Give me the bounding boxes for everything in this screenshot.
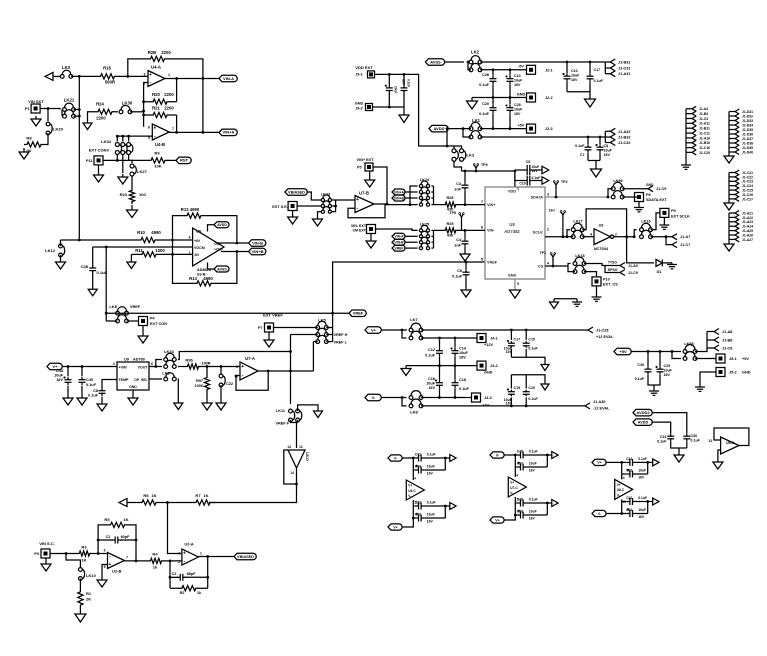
svg-text:P7: P7 <box>258 326 263 330</box>
node LK66 split <box>607 196 610 199</box>
svg-text:R7: R7 <box>195 493 201 498</box>
CS wire <box>545 265 568 267</box>
node U2A out <box>169 555 210 579</box>
svg-text:1000: 1000 <box>195 384 203 388</box>
node fb left top <box>171 239 174 242</box>
svg-text:VIN+B: VIN+B <box>252 249 264 254</box>
svg-text:VOCM: VOCM <box>194 246 205 250</box>
LK23 right vert <box>335 200 337 212</box>
svg-text:10uF: 10uF <box>529 509 537 513</box>
ground C7C18 <box>591 166 602 177</box>
node U7A out vert <box>289 370 292 373</box>
resistor R20 <box>144 92 177 104</box>
svg-text:C37: C37 <box>517 461 523 465</box>
svg-text:V+: V+ <box>510 481 514 485</box>
svg-text:C6: C6 <box>457 269 462 273</box>
C20b bot <box>525 398 527 406</box>
node P5b join <box>386 203 389 206</box>
wire down to LK29 <box>47 109 49 122</box>
capacitor C30a <box>635 363 652 381</box>
TP7 stub <box>562 217 564 237</box>
LK18 left tie <box>568 266 575 272</box>
svg-text:LK2: LK2 <box>471 50 480 55</box>
ground C6 <box>461 288 471 297</box>
LK25 right stub4 <box>431 247 433 249</box>
op-amp U5-D <box>287 445 309 475</box>
connector P6 SDATA EXT <box>635 193 668 203</box>
svg-text:VIN+: VIN+ <box>487 203 496 207</box>
jumper LK8 A <box>409 391 423 400</box>
svg-text:C3: C3 <box>456 182 461 186</box>
node mid J4 <box>438 364 456 367</box>
terminal VBIASED out <box>234 553 256 560</box>
wire U4-B pin5 row <box>117 135 152 137</box>
svg-text:J1-C31: J1-C31 <box>618 67 630 71</box>
label TTSO <box>608 261 617 265</box>
label GND sdata <box>646 183 654 187</box>
wire R96 right <box>201 366 240 368</box>
wire VOUT right <box>149 366 162 368</box>
C5 bottom <box>464 191 466 205</box>
svg-text:C45: C45 <box>517 449 523 453</box>
capacitor C6 <box>452 269 469 279</box>
jumper LK16 A <box>640 220 653 232</box>
LK34 col2 stub <box>122 136 124 141</box>
chevron J1-C9 <box>648 186 666 192</box>
svg-text:VIN+A: VIN+A <box>394 190 405 194</box>
svg-text:1k: 1k <box>153 565 158 570</box>
wire P5b to output <box>373 167 387 204</box>
svg-text:2: 2 <box>178 560 180 564</box>
capacitor C10 <box>563 69 581 82</box>
svg-text:R11: R11 <box>135 248 143 253</box>
LK34 col3 bottom <box>129 155 132 163</box>
svg-text:10uF: 10uF <box>514 108 523 112</box>
TP1 stub <box>552 259 554 266</box>
svg-text:C10: C10 <box>571 69 578 73</box>
U7B feedback <box>348 204 385 218</box>
wire V+ to AD780 <box>62 366 117 368</box>
AVDD2a wire <box>652 413 687 433</box>
svg-text:C15: C15 <box>528 338 535 342</box>
svg-text:U2-B: U2-B <box>112 569 121 574</box>
svg-text:10uF: 10uF <box>54 374 64 378</box>
capacitor C19 <box>519 176 542 186</box>
C15 bot <box>525 349 527 357</box>
chevron J1-B32 <box>605 134 630 140</box>
fb top left <box>173 216 189 284</box>
svg-text:12: 12 <box>299 445 303 449</box>
node C7 C18 <box>587 136 602 139</box>
connector P4 EXT CON <box>139 317 168 327</box>
LK24 right stub1 <box>431 185 433 187</box>
svg-text:J1-C24: J1-C24 <box>742 184 753 188</box>
wire U4-A pin2 down <box>144 83 148 127</box>
header J1 group2 <box>729 109 753 156</box>
svg-text:R13: R13 <box>189 276 197 281</box>
LK66a right <box>622 188 648 190</box>
svg-text:4990: 4990 <box>151 230 161 235</box>
ground LK32 <box>174 403 183 410</box>
TP5 stub <box>461 220 463 230</box>
svg-text:J1-B11: J1-B11 <box>699 127 710 131</box>
svg-text:C12: C12 <box>428 348 435 352</box>
wire R28 to right vertical <box>172 59 203 132</box>
svg-text:V+: V+ <box>371 327 377 332</box>
node j43 <box>438 396 456 399</box>
svg-text:J1-A22: J1-A22 <box>742 216 753 220</box>
C4 bot <box>464 247 466 252</box>
svg-text:+IN: +IN <box>194 239 200 243</box>
connector J2-1 <box>527 65 553 74</box>
capacitor C46 grp2 <box>515 497 547 506</box>
avdd2 gnd stub <box>678 448 680 455</box>
LK11 col2 top <box>298 405 318 411</box>
svg-text:J1-A32: J1-A32 <box>618 130 630 134</box>
svg-text:4990: 4990 <box>203 276 213 281</box>
resistor R5 <box>104 517 130 528</box>
svg-text:VIN+ EXT: VIN+ EXT <box>357 158 375 162</box>
chevron J1-A8 <box>707 329 732 335</box>
capacitor C38 <box>81 264 108 275</box>
capacitor C2 <box>172 572 197 581</box>
svg-text:1K: 1K <box>203 493 208 498</box>
capacitor C1 <box>106 535 131 544</box>
wire LK27 to R23 <box>131 177 133 189</box>
capacitor C23 grp3 <box>622 468 648 479</box>
svg-text:VREF: VREF <box>130 305 141 309</box>
svg-text:16V: 16V <box>427 472 434 476</box>
chevron J1-A30 <box>585 400 610 411</box>
svg-text:1nF: 1nF <box>454 188 461 192</box>
C30a stub <box>647 352 649 367</box>
wire vx tie2 grp1 <box>444 505 447 518</box>
svg-text:C28: C28 <box>514 103 521 107</box>
capacitor C45 <box>79 377 97 387</box>
buffer arrow 2 grp2 <box>547 500 558 507</box>
resistor R7 <box>190 493 216 505</box>
capacitor C42 grp1 <box>413 452 445 461</box>
terminal V+ J4 <box>365 327 381 334</box>
svg-text:P1: P1 <box>25 107 30 111</box>
jumper LK2 B <box>469 63 482 71</box>
C29 stub <box>659 352 661 367</box>
svg-text:J1-C25: J1-C25 <box>742 189 753 193</box>
svg-text:LK10: LK10 <box>86 573 97 578</box>
svg-text:J1-B16: J1-B16 <box>699 141 710 145</box>
capacitor C38 grp2 <box>515 509 547 520</box>
ground P6 <box>634 202 644 212</box>
terminal +5V <box>614 348 631 355</box>
node U5D fb <box>295 483 298 486</box>
op-amp U4-A <box>144 65 171 87</box>
chevron J1-C8 <box>714 345 732 351</box>
wire tri top grp3 <box>621 474 623 479</box>
capacitor C45 grp2 <box>515 449 547 458</box>
SCLK wire <box>545 236 567 238</box>
op-amp U8-C <box>615 476 633 504</box>
C19b bot <box>510 398 512 406</box>
test point TP5 <box>449 211 464 220</box>
LK24 right vert <box>433 186 435 205</box>
svg-text:P3: P3 <box>34 552 39 556</box>
C29 bot <box>654 375 660 385</box>
svg-text:VIN S.C.: VIN S.C. <box>39 541 55 546</box>
LK1 left tie <box>463 129 471 137</box>
svg-text:VIN-A: VIN-A <box>394 235 404 239</box>
ground P9 <box>659 218 669 230</box>
svg-text:+VIN: +VIN <box>119 366 127 370</box>
svg-text:6: 6 <box>104 549 106 553</box>
svg-text:AVSS: AVSS <box>217 267 227 271</box>
connector P5 <box>288 202 297 211</box>
mid gnd rail J4 <box>406 365 477 367</box>
terminal VIN+A <box>219 129 237 136</box>
label RPSO <box>608 268 618 272</box>
VDD rail right <box>462 170 515 172</box>
jumper LK23 row3 <box>321 207 331 214</box>
svg-text:0.1uF: 0.1uF <box>529 497 538 501</box>
svg-text:2: 2 <box>615 233 617 237</box>
jumper LK30 <box>119 101 133 114</box>
bundle32 feed2 <box>604 137 606 143</box>
svg-text:3: 3 <box>547 192 549 196</box>
C15 stub <box>525 330 527 340</box>
svg-text:J1-B32: J1-B32 <box>618 136 630 140</box>
LK17b left <box>567 236 573 238</box>
J1C7 stub <box>666 237 672 245</box>
chevron J1-A9 <box>620 263 638 269</box>
terminal RST <box>176 157 191 164</box>
ground P5 <box>288 211 298 225</box>
node lk17 <box>566 235 569 238</box>
ground header4 <box>724 244 734 251</box>
svg-text:10uF: 10uF <box>638 468 646 472</box>
capacitor C27 <box>401 79 411 94</box>
wire LK33 right <box>178 352 291 360</box>
svg-text:10uF: 10uF <box>427 464 435 468</box>
svg-text:0.1uF: 0.1uF <box>452 275 463 279</box>
ground mid rail <box>467 98 478 110</box>
svg-text:J2-1: J2-1 <box>545 69 553 73</box>
svg-text:EXT S.E.: EXT S.E. <box>272 205 288 209</box>
svg-text:0.1uF: 0.1uF <box>97 270 108 275</box>
svg-text:10uF: 10uF <box>427 512 435 516</box>
svg-text:LK3: LK3 <box>62 65 71 70</box>
C4 stub <box>464 230 466 238</box>
jumper LK24 row3 <box>419 193 429 200</box>
ground header3 <box>724 203 734 210</box>
jumper LK34 col2 <box>121 143 127 155</box>
node C12 C14 <box>438 337 456 340</box>
connector P10 EXT CS <box>592 277 618 287</box>
C19b stub <box>510 375 512 389</box>
ground C45 <box>77 398 87 405</box>
C22 stub <box>220 367 222 375</box>
svg-text:C38: C38 <box>517 509 523 513</box>
svg-text:LK17: LK17 <box>573 220 582 224</box>
J1C8 stub <box>707 347 714 349</box>
ground AVDD2 <box>674 455 684 462</box>
wire P7 to LK5 <box>274 327 318 329</box>
LK68a right <box>695 332 707 352</box>
svg-text:R2B: R2B <box>148 50 157 55</box>
LK2 left tie <box>468 62 471 70</box>
VIN+B wire <box>405 197 418 199</box>
LK16 feed <box>634 230 636 237</box>
V+ wire <box>381 329 407 331</box>
svg-text:+: + <box>183 550 186 556</box>
chevron J1-C28 <box>588 327 614 339</box>
chevron J1-B31 <box>605 59 630 65</box>
svg-text:0.1uF: 0.1uF <box>528 397 538 401</box>
resistor R24 <box>94 102 116 121</box>
LK68 feed <box>672 352 681 359</box>
ground P5 VIN+EXT <box>365 171 375 187</box>
jumper LK5 A <box>316 318 328 330</box>
U6C gnd <box>718 450 721 462</box>
svg-text:EXT CONV: EXT CONV <box>89 148 110 153</box>
capacitor C17b <box>504 338 520 355</box>
capacitor C30b <box>683 433 700 442</box>
wire feedback up <box>128 59 143 77</box>
LK1b right long <box>480 136 605 138</box>
ground bracket right <box>572 299 582 307</box>
ground P8 <box>366 234 376 249</box>
terminal VIN+A in <box>392 189 405 195</box>
terminal VIN+B in <box>392 195 405 201</box>
svg-text:C38: C38 <box>81 264 89 269</box>
op-amp U2-B <box>104 549 128 574</box>
svg-text:100: 100 <box>139 192 146 197</box>
label EXT SE <box>272 205 288 209</box>
LK3 bottom tie <box>454 162 462 172</box>
test point TP1 <box>539 251 555 260</box>
svg-text:LK11: LK11 <box>276 409 285 413</box>
jumper LK7 B <box>409 331 423 340</box>
terminal AVDD <box>429 125 448 132</box>
svg-text:AVDD: AVDD <box>433 126 444 131</box>
svg-text:R3: R3 <box>81 545 87 550</box>
node R97 <box>206 365 223 368</box>
wire LK21a to bus <box>74 109 80 111</box>
ground C4 <box>460 252 470 261</box>
capacitor C43 grp1 <box>413 500 445 509</box>
wire AVDD to LK1 <box>448 128 471 130</box>
svg-text:U4-A: U4-A <box>151 65 161 70</box>
ground IC <box>510 290 521 298</box>
node U7A fb LK9 <box>235 370 270 378</box>
buffer arrow 2 grp3 <box>648 498 659 505</box>
svg-text:J1-C7: J1-C7 <box>680 243 690 247</box>
terminal VREF <box>349 310 366 317</box>
svg-text:AVDD2: AVDD2 <box>636 410 650 415</box>
svg-text:C22: C22 <box>226 382 233 386</box>
connector J2-3 <box>527 124 553 133</box>
svg-text:LK27: LK27 <box>137 169 148 174</box>
svg-text:+12V: +12V <box>484 343 493 347</box>
C17 bot <box>589 82 591 92</box>
LK18b right <box>584 272 597 277</box>
ground U6-C <box>713 462 723 469</box>
svg-text:CS: CS <box>538 264 544 268</box>
svg-text:-12 EVAL: -12 EVAL <box>593 407 610 411</box>
svg-text:V+: V+ <box>408 484 412 488</box>
C20b stub <box>525 375 527 389</box>
jumper LK17 B <box>571 230 584 238</box>
svg-text:U7-A: U7-A <box>245 356 255 361</box>
svg-text:R25: R25 <box>447 222 454 226</box>
C17b stub <box>510 330 512 340</box>
P5 to LK23 <box>297 205 321 207</box>
R4 to U2A <box>164 560 182 562</box>
svg-text:J1-D40: J1-D40 <box>742 150 753 154</box>
C7 bot <box>587 153 589 161</box>
svg-text:LK21: LK21 <box>64 98 75 103</box>
svg-text:1: 1 <box>200 552 202 556</box>
svg-text:C14: C14 <box>459 347 467 351</box>
wire VOCM stub <box>93 246 193 248</box>
svg-text:C20: C20 <box>482 102 489 106</box>
U2B out <box>125 560 149 562</box>
svg-text:TP1: TP1 <box>539 251 546 255</box>
svg-text:J1-D31: J1-D31 <box>742 110 753 114</box>
connector J5-1 <box>716 354 749 363</box>
svg-text:R20: R20 <box>152 92 160 97</box>
buf row2 <box>515 180 524 182</box>
jumper LK33 <box>164 349 176 361</box>
svg-text:-IN: -IN <box>194 253 199 257</box>
svg-text:C18: C18 <box>459 378 466 382</box>
node R21 output <box>175 131 178 134</box>
terminal VIN+B <box>249 248 266 255</box>
wire U6 out+ to VIN-B <box>217 242 249 244</box>
test point TP7 <box>548 209 565 218</box>
svg-text:GND: GND <box>129 385 137 389</box>
buffer arrow 1 grp1 <box>445 455 456 462</box>
D1 to gnd <box>662 262 672 264</box>
svg-text:10uF: 10uF <box>638 508 646 512</box>
op-amp U7-C <box>508 474 526 502</box>
C5 top stub <box>464 171 466 182</box>
node fb out+ <box>236 242 239 245</box>
svg-text:U8: U8 <box>509 222 515 227</box>
C18 bot <box>454 389 456 398</box>
svg-text:0.1uF: 0.1uF <box>657 440 667 444</box>
C17b bot <box>510 349 512 357</box>
node LK8 split <box>401 396 404 399</box>
jumper LK18 A <box>573 254 586 265</box>
capacitor C14 <box>451 347 469 360</box>
SCLK down to D1 <box>627 237 654 263</box>
capacitor C28 pol <box>506 98 524 129</box>
jumper LK16 B <box>640 230 653 238</box>
node VREF F vert <box>289 350 292 353</box>
jumper LK66 B <box>611 191 624 199</box>
jumper LK2 A <box>469 50 482 64</box>
ground below P1 <box>31 116 41 126</box>
svg-text:10uF: 10uF <box>514 79 523 83</box>
R26 to IC <box>458 204 485 206</box>
U7-A out right <box>268 370 313 372</box>
svg-text:NC7S04: NC7S04 <box>594 247 609 251</box>
U2A fb left <box>169 561 171 588</box>
svg-text:CM EXT: CM EXT <box>352 229 366 233</box>
capacitor C17 <box>587 68 604 83</box>
resistor R26 <box>443 196 458 212</box>
svg-text:AVDD: AVDD <box>638 420 649 424</box>
svg-text:VIN-B: VIN-B <box>252 240 263 245</box>
